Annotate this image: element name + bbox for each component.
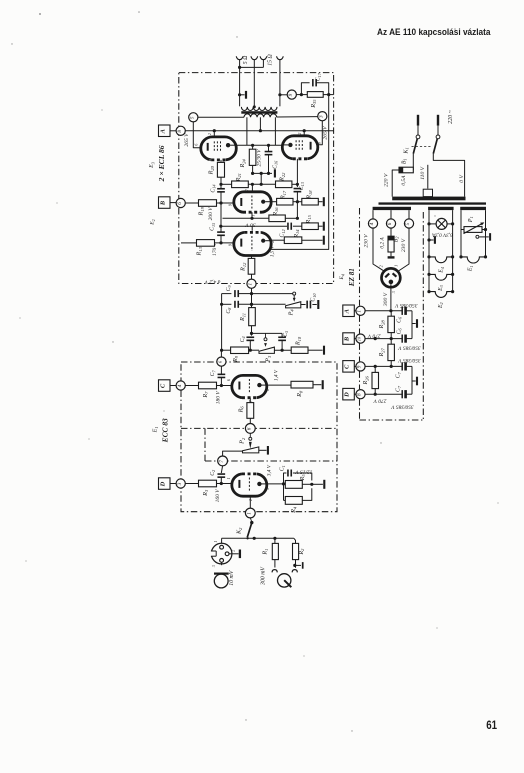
node 5 HT	[404, 219, 413, 228]
capacitor C10	[306, 301, 308, 309]
wire node9 row	[365, 365, 402, 367]
svg-text:160 V: 160 V	[215, 489, 221, 503]
resistor R18	[302, 198, 319, 205]
wire V5 bottom to R6	[249, 398, 251, 403]
DIN bottom stub	[221, 562, 223, 565]
svg-text:1: 1	[214, 541, 218, 543]
resistor R12	[248, 258, 255, 274]
dashed partition around P2 and cathode network	[205, 460, 337, 462]
ground on rail lower	[412, 380, 416, 382]
transformer primary bar	[392, 197, 465, 201]
speaker terminal hook 2	[251, 56, 258, 59]
rectifier tube EZ81	[382, 268, 401, 287]
capacitor C5	[278, 336, 286, 338]
capacitor C8	[222, 303, 232, 305]
svg-text:2 × ECL 86: 2 × ECL 86	[157, 145, 166, 182]
wire R11 to C4 row	[251, 326, 253, 336]
potentiometer P3	[259, 347, 274, 353]
line input jack symbol	[278, 574, 291, 587]
wire R21 to R22	[248, 183, 275, 185]
wire R7 to V5 grid	[217, 385, 232, 387]
svg-text:10 mV: 10 mV	[229, 569, 235, 585]
output transformer core	[241, 111, 277, 114]
wire node 9 to R35	[296, 94, 307, 96]
wire C17 right down to R35 right	[316, 83, 329, 95]
wire to P4 wiper	[252, 293, 293, 295]
svg-text:220 ~: 220 ~	[448, 109, 454, 124]
heater winding E4	[427, 255, 430, 258]
svg-text:3: 3	[319, 115, 325, 118]
node 4 left	[176, 381, 185, 390]
V4 cathode	[240, 239, 242, 247]
wire node4 to rectifier	[373, 228, 384, 271]
V2 cathode	[310, 142, 312, 150]
V3 top lead to R21 row	[251, 184, 253, 192]
wire C6a to right rail	[406, 310, 412, 312]
fuse B1	[399, 167, 413, 173]
V3 bottom lead	[251, 212, 253, 218]
svg-text:9: 9	[357, 365, 363, 368]
ground after R18	[318, 201, 322, 203]
svg-text:C17: C17	[316, 72, 322, 81]
svg-text:C: C	[159, 383, 166, 388]
capacitor C16	[265, 151, 273, 153]
resistor R14	[284, 237, 302, 244]
DIN pin bottom	[220, 559, 224, 563]
V4 bottom lead to R12	[251, 256, 253, 259]
capacitor C17	[312, 79, 314, 86]
svg-text:A: A	[344, 309, 351, 314]
svg-text:C13: C13	[299, 182, 305, 190]
heater winding bar 3	[460, 207, 486, 210]
wire bar2 right down	[452, 210, 454, 292]
resistor R35	[307, 92, 323, 98]
wire R4 right up	[302, 488, 312, 500]
svg-text:a 4,2 V: a 4,2 V	[204, 279, 220, 286]
node 1 right	[356, 306, 365, 315]
svg-text:C12: C12	[280, 229, 286, 237]
input bus wire	[253, 537, 256, 540]
svg-text:230 V: 230 V	[363, 234, 369, 248]
resistor R20	[217, 162, 224, 177]
wire bus corner to R2	[294, 538, 296, 543]
node 9 feedback	[287, 90, 296, 99]
HT secondary winding bar	[373, 207, 411, 210]
svg-text:A: A	[159, 129, 166, 134]
dashed right edge power supply box	[422, 212, 424, 420]
resistor R6	[247, 403, 254, 419]
wire R11 junction to C5	[252, 332, 283, 334]
wire R4 left to cathode	[283, 484, 285, 501]
terminal box A right	[343, 305, 355, 317]
resistor R5	[285, 481, 302, 489]
svg-text:300 mV: 300 mV	[261, 566, 267, 586]
resistor R1	[272, 543, 278, 559]
svg-text:B1: B1	[401, 158, 407, 164]
heater winding bar 2	[428, 207, 454, 210]
svg-text:3,4 V: 3,4 V	[266, 464, 273, 476]
dashed box preamp stage E1 ECC83	[181, 362, 337, 512]
svg-text:9: 9	[229, 244, 233, 246]
svg-text:C2: C2	[210, 470, 216, 476]
resistor R3	[199, 480, 217, 487]
wire node6 to R19	[185, 202, 198, 204]
resistor R28	[388, 316, 395, 332]
wire R20 to R21 row	[220, 177, 222, 184]
resistor R8	[291, 381, 313, 388]
svg-text:2: 2	[208, 133, 212, 135]
node 8 left	[176, 126, 185, 135]
svg-text:C15: C15	[210, 223, 216, 231]
wire node10 row	[365, 338, 402, 340]
output transformer primary winding	[244, 114, 277, 118]
wire node5 to primary	[198, 116, 244, 118]
V1 grids	[213, 141, 215, 152]
svg-text:5: 5	[190, 116, 196, 119]
switch K2	[250, 518, 251, 522]
svg-text:15 Ω: 15 Ω	[268, 54, 274, 65]
svg-text:E4: E4	[439, 267, 445, 274]
node 1 output stage	[247, 279, 256, 288]
primary tap box	[423, 189, 432, 196]
ground on rail upper	[412, 323, 416, 325]
svg-text:2: 2	[298, 133, 302, 135]
svg-text:8: 8	[357, 393, 363, 396]
svg-text:4: 4	[176, 384, 183, 387]
wire node3 to R3	[185, 483, 198, 485]
wire primary to node 3	[277, 116, 318, 118]
svg-text:2: 2	[249, 499, 253, 501]
tube V6 triode ECC83 b	[232, 474, 267, 496]
svg-text:0,2 A: 0,2 A	[379, 237, 385, 249]
wire terminal1 to terminal3	[240, 66, 264, 68]
node 6 on partition	[245, 424, 255, 434]
V4 anode	[261, 239, 265, 243]
wire V6 bottom to node 1	[249, 496, 251, 508]
svg-text:1,4 V: 1,4 V	[273, 369, 280, 381]
wire R17 to R18	[293, 201, 302, 203]
terminal box D right	[343, 388, 355, 400]
wire V5 to R8	[267, 384, 291, 386]
svg-text:9: 9	[229, 204, 233, 206]
DIN ground lug	[229, 553, 239, 555]
svg-text:1: 1	[227, 477, 231, 479]
tube V4 triode phase splitter	[234, 232, 271, 255]
wire left rail to node 6	[220, 350, 222, 357]
resistor R10	[291, 347, 308, 353]
tube V1 pentode ECL86 a	[201, 137, 236, 160]
capacitor C6 upper	[401, 307, 403, 315]
wire node1 row filter	[365, 310, 402, 312]
wire node3 down to V2 plate	[318, 121, 323, 145]
tube V2 pentode ECL86 b	[282, 136, 318, 159]
svg-text:9: 9	[288, 93, 294, 96]
resistor R16	[269, 215, 285, 222]
node 6 left	[176, 198, 185, 207]
svg-text:25/30 V: 25/30 V	[257, 149, 263, 167]
svg-text:E2: E2	[438, 302, 444, 309]
V2 grids	[295, 140, 297, 151]
terminal box C right	[343, 361, 355, 373]
svg-text:C7: C7	[210, 370, 216, 377]
potentiometer P2 volume	[243, 447, 259, 453]
capacitor C6 lower	[401, 335, 403, 343]
wire C12 to R15	[293, 225, 302, 227]
wire box B to node 6	[170, 202, 176, 204]
microphone jack symbol	[214, 574, 228, 588]
svg-text:C10: C10	[311, 293, 317, 302]
node 9 right	[356, 362, 365, 371]
V5 grid	[248, 379, 250, 394]
V5 cathode	[238, 382, 240, 390]
resistor R2	[293, 543, 299, 559]
potentiometer P1 hum balance	[464, 227, 482, 233]
svg-text:180 V: 180 V	[215, 391, 221, 405]
screen decoupling row with ground	[253, 172, 272, 174]
V6 grid	[248, 478, 250, 493]
V1 cathode	[207, 143, 209, 151]
resistor R19	[199, 200, 217, 207]
svg-text:1: 1	[248, 282, 254, 285]
svg-text:1: 1	[357, 310, 363, 313]
node 7	[218, 456, 228, 466]
svg-text:2: 2	[380, 265, 384, 267]
svg-text:350/385 V: 350/385 V	[398, 357, 422, 363]
pilot lamp	[427, 222, 430, 225]
DIN pin top	[220, 545, 224, 549]
svg-text:E4: E4	[339, 274, 345, 280]
wire primary left to V1 plate row	[246, 117, 248, 145]
svg-text:8: 8	[266, 389, 270, 391]
svg-text:6: 6	[177, 202, 183, 205]
resistor R13	[197, 240, 215, 247]
wire R9 to P3	[249, 349, 259, 351]
capacitor C7 coupling	[218, 373, 226, 375]
svg-text:6: 6	[317, 142, 321, 144]
node 4 HT	[368, 219, 377, 228]
wire paraphase tap row to C12	[221, 225, 287, 227]
svg-text:2: 2	[232, 550, 236, 552]
svg-text:220 V: 220 V	[383, 173, 389, 187]
resistor R21	[232, 181, 249, 188]
svg-text:B2: B2	[393, 237, 399, 243]
wiper stub P3	[265, 333, 267, 337]
svg-text:C6: C6	[396, 316, 402, 323]
svg-text:6: 6	[227, 379, 231, 381]
wire to node 6	[390, 210, 392, 219]
V3 cathode	[240, 198, 242, 206]
svg-text:C5: C5	[283, 331, 289, 337]
wire secondary tap to node 9	[278, 93, 281, 96]
svg-text:265 V: 265 V	[184, 133, 190, 147]
svg-text:1: 1	[395, 265, 399, 267]
scan speckles	[138, 11, 140, 13]
svg-text:350/385 V: 350/385 V	[394, 302, 418, 308]
wire bar3 left down	[460, 210, 462, 257]
ground after P2	[259, 449, 267, 451]
wire to node 5	[408, 210, 410, 219]
V2 anode	[288, 143, 292, 147]
resistor R4	[285, 497, 302, 505]
wire R5 to ground	[302, 483, 312, 485]
svg-text:1: 1	[247, 512, 253, 515]
mains terminal right	[437, 115, 439, 126]
wire K1 right to 0V end	[433, 154, 464, 197]
filter right rail upper	[411, 311, 413, 339]
V6 anode	[257, 482, 261, 486]
wire to DIN pin 1	[221, 538, 223, 545]
svg-text:265 V: 265 V	[323, 126, 329, 140]
wire node4 to R7	[185, 385, 198, 387]
speaker terminal hook 4	[277, 56, 284, 59]
dashed box output stage E3	[179, 73, 334, 284]
wire K1 left to fuse	[412, 154, 414, 170]
wire primary right to V2 plate row	[274, 117, 276, 145]
wire R16 right	[285, 217, 297, 219]
wire grid row V4	[181, 242, 197, 244]
svg-text:E3: E3	[438, 285, 444, 292]
wire V4 cathode to R14	[271, 239, 284, 241]
P4 wiper arrow	[293, 295, 295, 299]
terminal box B right	[343, 333, 355, 345]
V3 grid	[251, 196, 253, 209]
wire V6 cathode right	[267, 483, 284, 485]
svg-text:EZ 81: EZ 81	[348, 268, 356, 287]
node 3 anode tap	[318, 112, 327, 121]
capacitor C4	[246, 336, 254, 338]
svg-text:C4: C4	[240, 336, 246, 342]
svg-text:3: 3	[177, 482, 183, 485]
svg-text:3: 3	[212, 565, 216, 567]
wire R22 to C13 junction	[292, 183, 298, 185]
DIN microphone socket	[211, 543, 232, 564]
mains terminal left	[417, 115, 419, 126]
svg-text:6: 6	[387, 222, 393, 225]
terminal box B left	[159, 197, 171, 209]
svg-text:B: B	[159, 200, 166, 206]
svg-text:230 V: 230 V	[401, 238, 407, 252]
wire R6 to node 6	[249, 418, 251, 423]
coupling capacitor C14	[220, 184, 222, 188]
capacitor C7 lower filter	[401, 390, 403, 398]
svg-text:C: C	[344, 364, 351, 369]
svg-text:C1: C1	[280, 465, 286, 471]
wire R13 to V4 grid	[215, 242, 234, 244]
svg-text:0 V: 0 V	[459, 175, 465, 183]
wire V1 plate row to V2	[236, 144, 282, 146]
capacitor C12	[287, 223, 289, 230]
EZ81 cathode lead 300V	[390, 284, 392, 311]
coupling capacitor C15	[220, 203, 222, 232]
svg-text:C6: C6	[396, 328, 402, 335]
transformer core	[379, 202, 487, 204]
V2 bottom lead to R22 junction	[296, 159, 298, 185]
output transformer secondary winding	[241, 107, 277, 111]
terminal box A left	[159, 125, 171, 137]
V1 anode	[226, 143, 230, 147]
svg-text:3: 3	[266, 488, 270, 490]
wire P3 to R10	[274, 349, 291, 351]
left vertical of tone stack	[221, 294, 223, 351]
svg-text:350/385 V: 350/385 V	[398, 344, 422, 350]
wire node8 row	[365, 393, 402, 395]
wire P4 to C10	[301, 304, 306, 306]
capacitor C2 coupling	[217, 473, 225, 475]
wire R12 to node 1	[251, 274, 253, 279]
V5 anode	[257, 383, 261, 387]
wire terminal3 stub	[262, 63, 264, 68]
wire junction down to R16	[296, 202, 298, 219]
wire node7 to C2	[221, 466, 222, 473]
resistor R11	[249, 308, 256, 326]
terminal box C left	[159, 380, 171, 392]
svg-text:5 Ω: 5 Ω	[243, 56, 249, 65]
wire up to C17 left	[301, 83, 309, 95]
svg-text:200 V: 200 V	[208, 207, 214, 221]
V4 grid	[251, 236, 253, 251]
R2 bottom junction and ground	[295, 560, 297, 568]
node 6 HT center	[386, 219, 395, 228]
wire R19 to V3 grid	[217, 202, 234, 204]
wire C8 to P4	[238, 303, 285, 305]
DIN pin right	[225, 552, 229, 556]
wire terminal2 down to secondary	[253, 63, 255, 107]
svg-text:270 V: 270 V	[367, 332, 380, 338]
node 8 right	[356, 390, 365, 399]
speaker terminal hook 3	[260, 56, 267, 59]
svg-text:ECC 83: ECC 83	[161, 418, 170, 443]
svg-text:6: 6	[247, 427, 253, 430]
wire fuse to primary left	[392, 170, 399, 197]
R1 bottom hook	[274, 560, 276, 568]
svg-text:7: 7	[219, 460, 225, 463]
svg-text:12/15 V: 12/15 V	[295, 469, 313, 475]
svg-text:C16: C16	[272, 160, 278, 169]
wire box C to node 4	[170, 385, 176, 387]
svg-text:C7: C7	[396, 385, 402, 392]
capacitor C7 upper filter	[401, 362, 403, 370]
svg-text:C8: C8	[226, 307, 232, 314]
ground chassis on secondary	[238, 93, 241, 96]
EZ81 filaments	[385, 274, 389, 278]
dashed partition line in ECC83 box	[181, 427, 337, 429]
resistor R26	[372, 372, 379, 388]
node 1 preamp input	[245, 508, 255, 518]
svg-text:8: 8	[177, 130, 183, 133]
svg-text:0,5A: 0,5A	[401, 175, 407, 186]
potentiometer P4	[286, 302, 301, 308]
svg-text:5: 5	[405, 222, 411, 225]
node 3 left	[176, 479, 185, 488]
V6 cathode	[238, 480, 240, 488]
switch K1	[413, 139, 417, 154]
heater winding E3	[427, 273, 430, 276]
svg-text:E2: E2	[150, 219, 156, 225]
wire junction row to R21 row	[260, 173, 262, 184]
ground after C10	[312, 304, 316, 306]
svg-text:350/385 V: 350/385 V	[391, 403, 415, 409]
wire V3 anode to R17	[271, 201, 276, 203]
heater winding E2	[427, 290, 430, 293]
dashed bus line power supply left	[359, 208, 361, 306]
svg-text:Az AE 110 kapcsolási vázlata: Az AE 110 kapcsolási vázlata	[377, 27, 491, 37]
V2 pin 2 top lead	[303, 131, 305, 136]
feedback wire down right side	[270, 95, 328, 250]
ground after R15	[318, 225, 322, 227]
V1 pin 2 top lead	[213, 131, 215, 137]
wire P2 left to node 7	[223, 451, 243, 456]
tone stack bottom rail	[222, 349, 231, 351]
